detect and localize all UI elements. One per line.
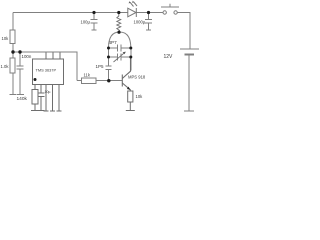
svg-text:10µ: 10µ [45,90,51,94]
svg-text:12V: 12V [164,54,174,60]
svg-text:4P7: 4P7 [109,40,118,45]
svg-text:10k: 10k [136,94,144,99]
svg-text:140k: 140k [17,96,28,102]
svg-text:10k: 10k [2,36,10,41]
svg-text:1000µ: 1000µ [134,20,146,25]
svg-text:11k: 11k [84,73,91,78]
svg-text:TMS 3637P: TMS 3637P [36,68,57,73]
svg-text:100µ: 100µ [81,20,91,25]
svg-text:100n: 100n [22,54,32,59]
svg-text:MPS 918: MPS 918 [128,75,146,80]
svg-text:1.0k: 1.0k [1,64,10,69]
svg-text:1P5: 1P5 [96,64,105,69]
